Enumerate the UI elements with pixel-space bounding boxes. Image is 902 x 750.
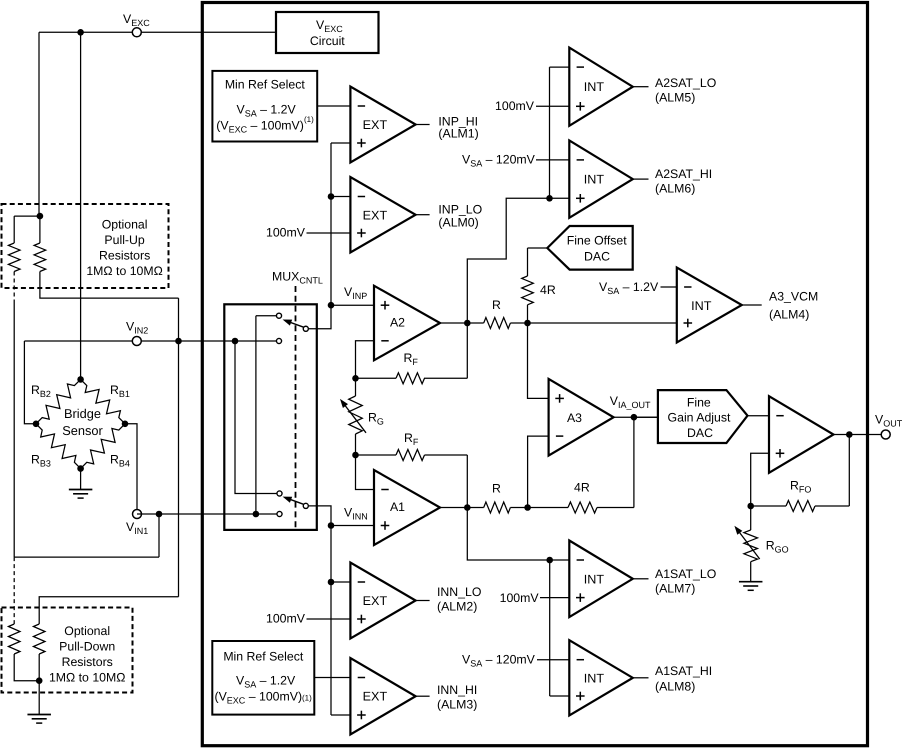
svg-text:Pull-Down: Pull-Down <box>59 640 115 654</box>
label V_IA_OUT <box>610 394 651 410</box>
wire A1SAT_HI output <box>633 677 649 679</box>
wire bus to INP_LO minus <box>331 196 350 198</box>
resistor RGO <box>744 530 758 562</box>
svg-text:VSA – 1.2V: VSA – 1.2V <box>236 673 296 689</box>
pin plus A1SAT_LO <box>576 593 585 602</box>
label ALM0 <box>438 216 478 230</box>
svg-text:EXT: EXT <box>363 208 388 222</box>
wire A2 minus elbow <box>356 341 375 379</box>
resistor RFO <box>786 501 815 512</box>
resistor RF (A2 feedback) <box>396 373 425 384</box>
label RFO <box>790 479 811 495</box>
label VEXC Circuit line1 <box>316 18 343 34</box>
label min ref bottom line3 <box>215 689 313 705</box>
label Sensor <box>62 423 103 438</box>
wire 4R to rail <box>527 305 529 323</box>
label INT (A3_VCM) <box>691 299 712 313</box>
pin minus A2SAT_LO <box>577 66 584 68</box>
label EXT (INN_HI) <box>363 690 388 704</box>
svg-text:4R: 4R <box>540 283 556 297</box>
label VSA-120mV (A2SAT_HI) <box>462 153 536 169</box>
wire pull-up top to left resistor <box>14 216 40 243</box>
wire V_EXC to bridge top <box>80 32 82 379</box>
wire 100mV to INN_LO plus <box>307 618 351 620</box>
svg-text:A2SAT_HI: A2SAT_HI <box>655 167 712 181</box>
svg-text:Resistors: Resistors <box>99 248 150 262</box>
resistor R (upper) <box>484 318 511 329</box>
svg-text:EXT: EXT <box>363 690 388 704</box>
wire VSA-1.2V to A3_VCM minus <box>661 286 677 288</box>
label RB2 <box>31 383 51 399</box>
label EXT (INP_LO) <box>363 208 388 222</box>
label min ref top line2 <box>237 102 297 118</box>
label INT (A2SAT_HI) <box>584 173 605 187</box>
svg-text:INT: INT <box>584 572 605 586</box>
label RB1 <box>110 383 130 399</box>
svg-text:(1): (1) <box>302 693 312 702</box>
svg-text:INT: INT <box>584 173 605 187</box>
resistor pull-down left (RPD1) <box>8 624 20 654</box>
Min Ref Select box (bottom) <box>212 641 314 715</box>
node bridge bottom <box>77 465 84 472</box>
wire gain DAC to output amp <box>748 415 769 417</box>
svg-text:RFO: RFO <box>790 479 811 495</box>
resistor pull-up left (RPU1) <box>8 243 20 272</box>
label ALM3 <box>437 698 477 712</box>
pin minus INN_LO <box>358 581 365 583</box>
svg-text:INT: INT <box>584 671 605 685</box>
wire V_EXC horizontal <box>39 31 276 33</box>
svg-text:RB4: RB4 <box>110 453 130 469</box>
label A3_VCM <box>769 290 818 304</box>
junction V_EXC / bridge-top branch <box>77 29 84 36</box>
pin minus A2 <box>381 340 388 342</box>
wire pull-down right bottom <box>38 654 40 681</box>
wire VIN2 column vertical <box>178 298 180 597</box>
pin minus A3 <box>556 435 563 437</box>
svg-text:(1): (1) <box>304 115 314 124</box>
junction RF-bottom / RG-bottom node <box>352 452 359 459</box>
label pull-up line3 <box>99 248 150 262</box>
svg-text:VSA – 120mV: VSA – 120mV <box>462 153 536 169</box>
arrow RGO variable <box>734 526 759 559</box>
junction bus INP_LO minus <box>328 193 335 200</box>
wire A3 output <box>614 416 658 418</box>
wire bus to A2SAT_LO minus <box>550 66 570 68</box>
wire A2 output to A2SAT bus <box>467 198 549 323</box>
junction V_OUT node <box>846 431 853 438</box>
switch S1 throw C contact <box>276 338 281 343</box>
svg-text:Pull-Up: Pull-Up <box>104 233 144 247</box>
pin plus A3_VCM <box>684 319 693 328</box>
resistor pull-up right (RPU2) <box>34 243 46 272</box>
label INN_HI <box>437 683 477 697</box>
svg-text:100mV: 100mV <box>500 591 540 605</box>
wire 100mV to A1SAT_LO plus <box>540 597 569 599</box>
pin plus A2 <box>381 301 390 310</box>
svg-text:RG: RG <box>368 410 384 426</box>
wire A1SAT_LO output <box>633 578 649 580</box>
terminal V_EXC <box>132 28 141 37</box>
label R upper <box>492 298 501 312</box>
label RB4 <box>110 453 130 469</box>
label INN_LO <box>437 585 481 599</box>
svg-text:A1SAT_LO: A1SAT_LO <box>655 567 716 581</box>
svg-text:VEXC: VEXC <box>316 18 343 34</box>
wire RGO top stub <box>750 506 752 530</box>
junction A1 output node <box>464 504 471 511</box>
MUX box <box>224 304 316 530</box>
wire A1 output to A1SAT bus <box>467 508 569 561</box>
wire RF bottom right to A1 output <box>425 455 468 508</box>
Fine Gain Adjust DAC block <box>658 390 748 443</box>
svg-text:EXT: EXT <box>363 118 388 132</box>
svg-text:INN_HI: INN_HI <box>437 683 477 697</box>
wire bus to A1SAT_HI plus <box>550 695 570 697</box>
junction lower rail / A3 minus node <box>524 504 531 511</box>
pin plus INP_HI <box>357 139 366 148</box>
junction pull-up top node <box>37 213 44 220</box>
op-amp output buffer triangle <box>769 396 834 473</box>
svg-text:Sensor: Sensor <box>62 423 103 438</box>
terminal V_IN1 <box>133 510 142 519</box>
switch S1 throw A contact <box>276 313 281 318</box>
svg-text:RF: RF <box>404 431 419 447</box>
wire INP_LO output <box>416 214 430 216</box>
svg-text:INP_LO: INP_LO <box>438 203 482 217</box>
V_EXC Circuit block U-VEXC <box>276 12 379 53</box>
label V_IN1 <box>126 520 148 536</box>
wire INN_LO output <box>416 600 430 602</box>
resistor pull-down right (RPD2) <box>33 624 45 654</box>
label A2SAT_HI <box>655 167 712 181</box>
svg-text:(ALM8): (ALM8) <box>655 680 695 694</box>
wire 100mV to INP_LO plus <box>307 232 351 234</box>
wire S1 throw A to column <box>256 315 276 317</box>
wire output amp out <box>834 434 882 436</box>
label 100mV (INP_LO) <box>266 226 306 240</box>
label INP_LO <box>438 203 482 217</box>
label ALM6 <box>655 182 695 196</box>
wire V_IN2 horizontal <box>24 340 276 342</box>
junction RFO/RGO node <box>747 503 754 510</box>
label min ref bottom line1 <box>223 649 304 663</box>
pin minus A1SAT_HI <box>577 659 584 661</box>
svg-text:R: R <box>492 482 501 496</box>
wire pull-down left bottom elbow <box>14 654 39 681</box>
junction RF-top / RG-top node <box>352 375 359 382</box>
comparator U-INNHI triangle <box>350 658 415 735</box>
label RGO <box>766 539 789 555</box>
op-amp A2 triangle <box>374 286 440 361</box>
label V_INP <box>344 285 367 301</box>
optional pull-down resistors dashed box <box>2 608 133 693</box>
wire A2SAT_HI output <box>633 178 649 180</box>
wire S2 common to V_INN <box>309 506 331 526</box>
wire VIN1 tap horizontal <box>14 556 159 558</box>
wire offset DAC to 4R <box>528 248 548 276</box>
svg-text:VSA – 120mV: VSA – 120mV <box>462 653 536 669</box>
wire min-ref to INP_HI minus <box>317 105 350 107</box>
svg-text:4R: 4R <box>574 481 590 495</box>
resistor RB4 bridge bottom-right <box>81 424 125 469</box>
svg-text:VSA – 1.2V: VSA – 1.2V <box>599 280 659 296</box>
wire bridge right node to VIN1 <box>125 424 137 514</box>
junction V_IN2 / pull column <box>175 338 182 345</box>
pin plus A2SAT_HI <box>576 194 585 203</box>
label A2 <box>390 316 405 330</box>
svg-text:Gain Adjust: Gain Adjust <box>668 411 731 425</box>
svg-text:A1SAT_HI: A1SAT_HI <box>655 664 712 678</box>
label VSA-120mV (A1SAT_HI) <box>462 653 536 669</box>
wire A2SAT_LO output <box>633 86 649 88</box>
label 4R lower <box>574 481 590 495</box>
svg-text:VIA_OUT: VIA_OUT <box>610 394 651 410</box>
wire 4R lower to VIAOUT <box>597 417 634 507</box>
svg-text:Min Ref Select: Min Ref Select <box>225 78 306 92</box>
svg-text:Resistors: Resistors <box>62 655 113 669</box>
label RG <box>368 410 384 426</box>
wire bus to INN_LO minus <box>331 581 350 583</box>
op-amp A3 triangle <box>549 379 614 456</box>
svg-text:R: R <box>492 298 501 312</box>
svg-text:(ALM4): (ALM4) <box>769 308 809 322</box>
svg-text:1MΩ to 10MΩ: 1MΩ to 10MΩ <box>49 671 125 685</box>
svg-text:A3: A3 <box>567 411 582 425</box>
junction bus A1SAT_LO minus <box>546 557 553 564</box>
wire to RF bottom left <box>356 454 397 456</box>
label A1 <box>390 500 405 514</box>
label ALM1 <box>438 127 478 141</box>
junction V_IA_OUT node <box>631 414 638 421</box>
svg-text:Min Ref Select: Min Ref Select <box>223 649 304 663</box>
resistor 4R (upper) <box>522 276 534 305</box>
label V_INN <box>344 506 368 522</box>
svg-text:(ALM2): (ALM2) <box>437 600 477 614</box>
junction bus INN_LO minus <box>328 579 335 586</box>
label min ref bottom line2 <box>236 673 296 689</box>
wire RG bottom stub <box>355 434 357 455</box>
dashed optional wire above left pull-down <box>13 557 15 624</box>
arrow RG variable <box>340 399 366 433</box>
label DAC (offset) <box>584 250 610 264</box>
junction upper rail / 4R node <box>524 320 531 327</box>
switch S1 lever <box>283 320 304 328</box>
dashed optional wire below left pull-up <box>13 272 15 302</box>
wire VIAOUT to gain DAC <box>634 416 658 418</box>
pin plus output amp <box>776 449 785 458</box>
label A2SAT_LO <box>655 76 716 90</box>
resistor RB1 bridge top-right <box>81 379 125 423</box>
comparator U-A2SATHI triangle <box>569 140 633 217</box>
Min Ref Select box (top) <box>212 71 317 142</box>
svg-text:VINN: VINN <box>344 506 368 522</box>
wire A1SAT bus vertical <box>549 560 551 696</box>
svg-text:VIN2: VIN2 <box>126 320 148 336</box>
wire A3_VCM output <box>742 304 762 306</box>
label DAC (gain) <box>687 426 713 440</box>
wire INN_HI output <box>416 695 430 697</box>
label Fine Offset <box>567 234 628 248</box>
junction V_IN1 / tap <box>156 511 163 518</box>
optional pull-up resistors dashed box <box>2 204 169 288</box>
svg-text:100mV: 100mV <box>266 612 306 626</box>
svg-text:RB1: RB1 <box>110 383 130 399</box>
label EXT (INN_LO) <box>363 594 388 608</box>
pin minus INP_LO <box>358 196 365 198</box>
wire INP_HI output <box>416 124 430 126</box>
wire column VIN1-to-S1A vertical <box>255 316 257 514</box>
label V_OUT <box>875 413 902 429</box>
switch S1 common contact <box>303 326 308 331</box>
label 100mV (A2SAT_LO) <box>495 99 535 113</box>
label VSA-1.2V (A3_VCM) <box>599 280 659 296</box>
label pull-down line3 <box>62 655 113 669</box>
wire upper rail right <box>510 322 676 324</box>
resistor RG (gain set) <box>349 396 363 434</box>
junction V_IN2 inside MUX <box>232 338 239 345</box>
comparator U-INNLO triangle <box>350 563 415 639</box>
label RF top <box>404 351 419 367</box>
svg-text:(ALM6): (ALM6) <box>655 182 695 196</box>
pin minus A3_VCM <box>684 286 691 288</box>
label R lower <box>492 482 501 496</box>
label INT (A1SAT_HI) <box>584 671 605 685</box>
svg-text:RB3: RB3 <box>31 453 51 469</box>
label ALM7 <box>655 582 695 596</box>
label INT (A2SAT_LO) <box>584 80 605 94</box>
pin plus A2SAT_LO <box>576 102 585 111</box>
pin minus A2SAT_HI <box>577 159 584 161</box>
svg-text:A2: A2 <box>390 316 405 330</box>
svg-text:EXT: EXT <box>363 594 388 608</box>
wire lower rail mid <box>510 507 568 509</box>
svg-text:(ALM1): (ALM1) <box>438 127 478 141</box>
wire A1 output <box>440 507 484 509</box>
wire A2 output <box>440 322 484 324</box>
wire VSA-120mV to A2SAT_HI minus <box>536 159 569 161</box>
resistor RB2 bridge top-left <box>36 379 81 423</box>
svg-text:INT: INT <box>691 299 712 313</box>
wire pull-down right elbow <box>39 597 178 624</box>
junction V_INP node <box>328 302 335 309</box>
label V_EXC <box>123 12 150 28</box>
wire RG top stub <box>355 378 357 396</box>
pin plus INN_LO <box>357 615 366 624</box>
pin minus output amp <box>776 415 783 417</box>
wire rail to A3 plus <box>528 323 549 398</box>
resistor RB3 bridge left-bottom <box>36 424 81 469</box>
label 4R upper <box>540 283 556 297</box>
junction pull-down bottom node <box>36 677 43 684</box>
svg-text:(ALM7): (ALM7) <box>655 582 695 596</box>
node bridge left <box>33 421 40 428</box>
svg-text:MUXCNTL: MUXCNTL <box>272 270 323 286</box>
svg-text:A2SAT_LO: A2SAT_LO <box>655 76 716 90</box>
outer block boundary box <box>202 3 867 746</box>
wire V_IN1 horizontal <box>137 513 277 515</box>
label INT (A1SAT_LO) <box>584 572 605 586</box>
op-amp A1 triangle <box>374 470 440 545</box>
svg-text:RB2: RB2 <box>31 383 51 399</box>
ground pull-down <box>27 715 51 724</box>
pin plus INP_LO <box>357 229 366 238</box>
wire pull-up right resistor bottom elbow <box>40 272 179 299</box>
wire bus to INP_HI plus <box>331 142 350 144</box>
svg-text:VIN1: VIN1 <box>126 520 148 536</box>
wire S1 common to V_INP <box>309 305 331 329</box>
svg-text:VOUT: VOUT <box>875 413 902 429</box>
svg-text:VINP: VINP <box>344 285 367 301</box>
svg-text:Bridge: Bridge <box>64 406 101 421</box>
label VEXC Circuit line2 <box>310 34 345 48</box>
wire min-ref to INN_HI minus <box>314 677 350 679</box>
ground RGO <box>739 582 763 591</box>
wire bus to INN_HI plus <box>331 714 350 716</box>
pin plus INN_HI <box>357 711 366 720</box>
wire output amp plus elbow <box>751 453 769 506</box>
label A1SAT_LO <box>655 567 716 581</box>
wire VIN1 tap vertical <box>158 514 160 557</box>
label RB3 <box>31 453 51 469</box>
svg-text:VEXC: VEXC <box>123 12 150 28</box>
comparator U-INPLO triangle <box>350 177 415 253</box>
wire V_INN to A1 plus <box>331 525 374 527</box>
svg-text:A1: A1 <box>390 500 405 514</box>
switch S2 throw F contact <box>277 511 282 516</box>
label min ref top line3 <box>216 115 314 135</box>
label Bridge <box>64 406 101 421</box>
wire 100mV to A2SAT_LO plus <box>536 105 569 107</box>
svg-text:DAC: DAC <box>687 426 713 440</box>
label 100mV (INN_LO) <box>266 612 306 626</box>
svg-text:(ALM3): (ALM3) <box>437 698 477 712</box>
label pull-down line2 <box>59 640 115 654</box>
switch S2 common contact <box>303 503 308 508</box>
switch S2 lever <box>283 497 304 505</box>
label pull-down line4 <box>49 671 125 685</box>
svg-text:Fine: Fine <box>687 396 711 410</box>
label Gain Adjust <box>668 411 731 425</box>
svg-text:RF: RF <box>404 351 419 367</box>
wire VSA-120mV to A1SAT_HI minus <box>537 659 569 661</box>
svg-text:100mV: 100mV <box>266 226 306 240</box>
dashed MUX control line <box>295 286 297 528</box>
label RF bottom <box>404 431 419 447</box>
wire V_IN2 column to S2 throw D <box>235 341 277 494</box>
node bridge right <box>122 421 129 428</box>
resistor RF (A1 feedback) <box>396 450 425 461</box>
label INP_HI <box>438 114 478 128</box>
svg-text:Optional: Optional <box>102 217 148 231</box>
comparator U-A1SATLO triangle <box>569 541 633 618</box>
svg-text:INT: INT <box>584 80 605 94</box>
label pull-up line1 <box>102 217 148 231</box>
junction bus A2SAT_HI plus <box>546 195 553 202</box>
label MUX_CNTL <box>272 270 323 286</box>
switch S2 throw D contact <box>277 491 282 496</box>
ground bridge <box>69 490 93 499</box>
comparator U-A2SATLO triangle <box>569 48 633 126</box>
wire pull-down to ground <box>38 681 40 715</box>
label ALM2 <box>437 600 477 614</box>
label 100mV (A1SAT_LO) <box>500 591 540 605</box>
wire V_INN bus vertical <box>330 526 332 716</box>
svg-text:Fine Offset: Fine Offset <box>567 234 628 248</box>
wire to RF top left <box>356 377 397 379</box>
label Fine <box>687 396 711 410</box>
pin plus A3 <box>555 394 564 403</box>
